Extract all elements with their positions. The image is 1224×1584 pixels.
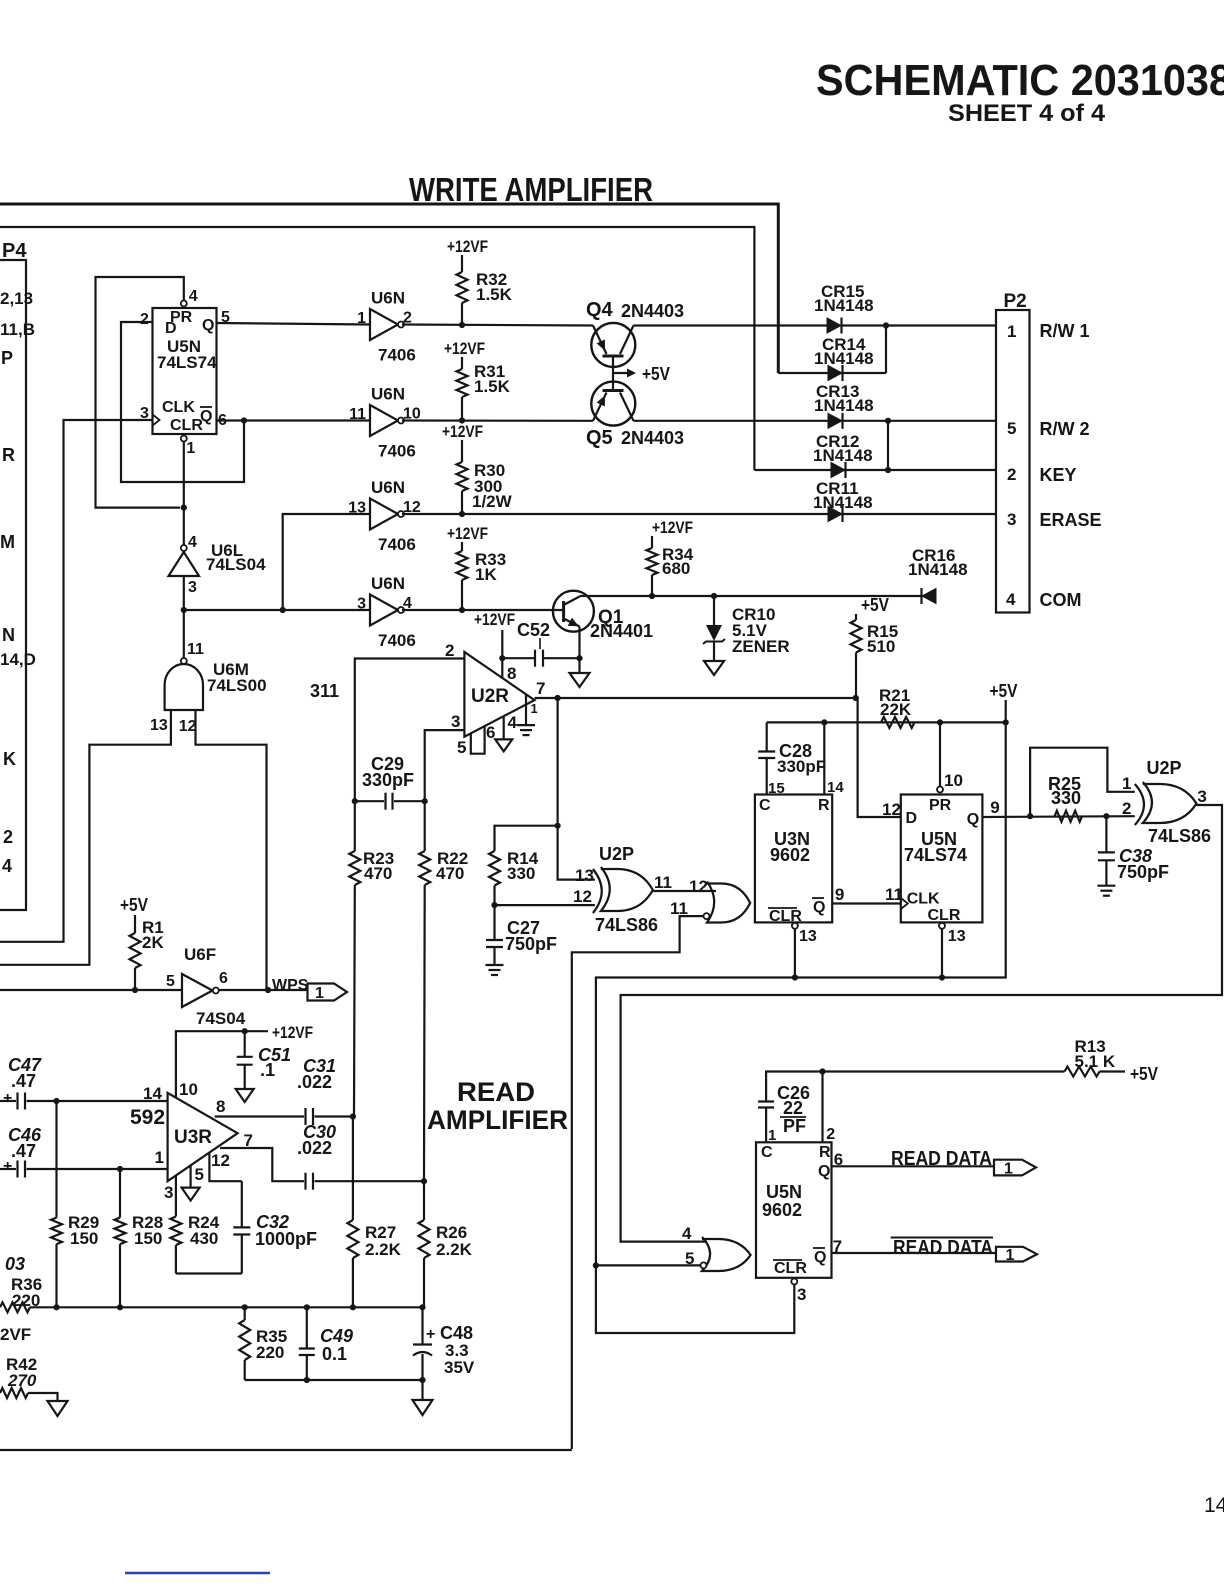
capacitor C51 .1 xyxy=(244,1031,246,1057)
svg-text:4: 4 xyxy=(189,288,198,305)
svg-text:D: D xyxy=(906,810,918,827)
svg-text:5: 5 xyxy=(166,973,175,990)
svg-text:5: 5 xyxy=(195,1165,204,1184)
wire U3N#1 Qbar pin9 to U5N#2 CLK xyxy=(832,902,901,904)
svg-text:7406: 7406 xyxy=(378,346,416,365)
opamp U3R 592 xyxy=(168,1093,238,1181)
svg-text:12: 12 xyxy=(689,877,708,896)
svg-text:3: 3 xyxy=(797,1285,806,1304)
svg-text:4: 4 xyxy=(508,713,518,732)
svg-text:.022: .022 xyxy=(297,1072,332,1092)
svg-text:READ DATA: READ DATA xyxy=(893,1237,993,1259)
resistor R26 2.2K xyxy=(423,1181,425,1220)
svg-text:4: 4 xyxy=(1006,590,1016,609)
svg-text:14: 14 xyxy=(1204,1494,1224,1517)
wire COM line Q1 collector to P2 pin4 xyxy=(580,595,922,597)
svg-text:11: 11 xyxy=(349,406,366,423)
svg-text:13: 13 xyxy=(150,717,168,734)
node junction C51 xyxy=(242,1028,248,1034)
U5N#1 PR bubble pin 4 xyxy=(181,301,187,307)
svg-text:22: 22 xyxy=(783,1098,803,1118)
svg-text:C: C xyxy=(761,1144,773,1161)
inverter U6N#3 7406 xyxy=(370,499,398,530)
svg-text:2N4403: 2N4403 xyxy=(621,301,684,321)
capacitor C32 1000pF xyxy=(241,1181,243,1227)
svg-text:PF: PF xyxy=(783,1116,806,1136)
svg-text:U6N: U6N xyxy=(371,385,405,404)
svg-text:C48: C48 xyxy=(440,1323,473,1343)
U2R pin4 ground xyxy=(503,717,505,740)
capacitor C38 750pF xyxy=(1105,816,1107,852)
wire OR#1 pin11 route from big loop xyxy=(572,916,704,1449)
svg-text:R/W 1: R/W 1 xyxy=(1040,321,1090,341)
svg-text:1/2W: 1/2W xyxy=(472,492,513,511)
inverter U6F 74S04 xyxy=(182,974,213,1007)
zener diode CR10 5.1V xyxy=(713,596,715,625)
wire U6L input down to node xyxy=(183,576,185,610)
wire CR13 to P2 pin5 xyxy=(843,420,997,422)
decorative blue mark xyxy=(125,1572,270,1575)
svg-text:150: 150 xyxy=(134,1229,162,1248)
svg-text:READ: READ xyxy=(457,1077,535,1107)
svg-text:11: 11 xyxy=(187,641,204,658)
svg-text:2N4403: 2N4403 xyxy=(621,428,684,448)
svg-text:680: 680 xyxy=(662,559,690,578)
svg-text:13: 13 xyxy=(348,500,366,517)
wire +12VF stub to U2R pin8 xyxy=(501,630,503,678)
svg-text:3: 3 xyxy=(1197,787,1206,806)
svg-text:ERASE: ERASE xyxy=(1040,510,1102,530)
svg-text:9602: 9602 xyxy=(770,845,810,865)
svg-text:4: 4 xyxy=(682,1224,692,1243)
svg-text:U6N: U6N xyxy=(371,574,405,593)
node junction R26/C48/rail end xyxy=(419,1304,425,1310)
svg-text:CLR: CLR xyxy=(774,1260,807,1277)
monostable U3N 9602 (first) xyxy=(755,795,832,923)
wire R35/C49/C48 bottom loop xyxy=(245,1379,423,1381)
svg-text:R: R xyxy=(2,445,15,465)
node junction C49/rail xyxy=(304,1304,310,1310)
U2R pin3 input wire xyxy=(425,730,465,801)
transistor Q4 2N4403 xyxy=(591,323,635,367)
svg-text:12: 12 xyxy=(179,718,197,735)
svg-text:2: 2 xyxy=(445,641,454,660)
resistor R35 220 xyxy=(244,1307,246,1320)
svg-text:KEY: KEY xyxy=(1040,465,1077,485)
svg-text:6: 6 xyxy=(834,1150,843,1169)
svg-text:AMPLIFIER: AMPLIFIER xyxy=(427,1105,568,1135)
ground R42 xyxy=(48,1401,68,1416)
wire PR loop (pin4 to node) xyxy=(96,277,184,508)
transistor Q1 2N4401 xyxy=(553,591,594,632)
svg-text:74LS00: 74LS00 xyxy=(207,676,267,695)
svg-text:1: 1 xyxy=(1004,1161,1013,1178)
node junction C30/R22/R26 xyxy=(421,1178,427,1184)
svg-text:R: R xyxy=(818,797,830,814)
node junction C52/emitter xyxy=(576,655,582,661)
resistor R23 470 xyxy=(354,801,356,851)
svg-text:750pF: 750pF xyxy=(1117,862,1169,882)
svg-text:+: + xyxy=(426,1326,435,1343)
inverter U6N#2 7406 xyxy=(370,405,398,436)
svg-text:3: 3 xyxy=(1007,510,1016,529)
wire D input loop from Q-bar xyxy=(121,322,244,482)
node junction R34/COM xyxy=(649,593,655,599)
svg-text:14: 14 xyxy=(143,1084,162,1103)
node junction C31/R23/R27 xyxy=(350,1113,356,1119)
wire U2R output pin7 xyxy=(535,697,858,699)
off-page flag READ DATA-bar 1 xyxy=(996,1247,1037,1262)
wire CLR loop xyxy=(596,1265,794,1333)
wire U3R pin7 route xyxy=(220,1148,304,1181)
svg-text:74LS86: 74LS86 xyxy=(1148,826,1211,846)
wire top bus 1 (to CR14) xyxy=(0,204,778,373)
svg-text:+12VF: +12VF xyxy=(444,339,485,358)
svg-text:14: 14 xyxy=(827,779,844,796)
svg-text:74LS74: 74LS74 xyxy=(157,353,217,372)
U3N#1 pin14 lead xyxy=(823,722,825,794)
svg-text:7: 7 xyxy=(244,1131,253,1150)
svg-text:430: 430 xyxy=(190,1229,218,1248)
svg-text:+5V: +5V xyxy=(861,595,889,615)
U5N#3 CLR bubble pin3 xyxy=(791,1279,797,1285)
resistor R31 1.5K xyxy=(461,357,463,369)
svg-text:2N4401: 2N4401 xyxy=(590,621,653,641)
wire PR pin10 stub xyxy=(939,722,941,786)
svg-text:WPS: WPS xyxy=(272,977,309,994)
svg-text:311: 311 xyxy=(310,681,339,701)
svg-text:1: 1 xyxy=(357,310,366,327)
wire R14 bottom to XOR pin12 xyxy=(495,904,595,906)
wire node to U6L output bubble xyxy=(183,508,185,545)
transistor Q5 2N4403 xyxy=(591,382,635,426)
svg-text:+5V: +5V xyxy=(1130,1064,1158,1084)
connector P2 xyxy=(996,310,1030,613)
svg-text:74LS74: 74LS74 xyxy=(904,845,967,865)
svg-text:Q4: Q4 xyxy=(586,299,614,321)
U2R pin5-6 strap xyxy=(471,726,485,754)
node junction C49 bottom xyxy=(304,1377,310,1383)
svg-text:P: P xyxy=(1,348,13,368)
node junction CR14/CR15 xyxy=(883,322,889,328)
node junction R29/rail xyxy=(53,1304,59,1310)
node junction CLR/PR/U6L xyxy=(181,505,187,511)
svg-text:1: 1 xyxy=(1007,322,1016,341)
U3N#1 CLR bubble pin13 xyxy=(792,923,798,929)
capacitor C52 xyxy=(544,657,580,659)
svg-text:11,B: 11,B xyxy=(0,320,35,339)
resistor R14 330 xyxy=(495,826,558,851)
node junction CR10/COM xyxy=(711,593,717,599)
wire U6N#1 output to Q4 base xyxy=(402,325,593,326)
svg-text:7406: 7406 xyxy=(378,535,416,554)
node junction Qbar/D-loop xyxy=(241,417,247,423)
resistor R21 22K xyxy=(881,717,915,728)
svg-text:3: 3 xyxy=(164,1183,173,1202)
wire U5N#2 pin13 to CLR return xyxy=(941,929,943,978)
svg-text:Q: Q xyxy=(967,811,979,828)
svg-text:1: 1 xyxy=(315,985,324,1002)
svg-text:Q: Q xyxy=(202,317,214,334)
svg-text:2: 2 xyxy=(826,1126,835,1143)
wire U6N#4 output to Q1 base xyxy=(402,609,564,611)
svg-text:2: 2 xyxy=(1007,465,1016,484)
node junction R30 xyxy=(459,511,465,517)
wire output down to U5N#2 D pin12 xyxy=(858,698,901,817)
svg-text:15: 15 xyxy=(768,780,785,797)
wire R42 to ground xyxy=(28,1393,58,1401)
svg-text:330: 330 xyxy=(1051,788,1081,808)
svg-text:C49: C49 xyxy=(320,1326,353,1346)
U2R pin1 earth ground xyxy=(525,694,527,725)
svg-text:5: 5 xyxy=(1007,419,1016,438)
svg-text:U2R: U2R xyxy=(471,686,509,707)
node junction R28/rail xyxy=(117,1304,123,1310)
svg-text:2: 2 xyxy=(140,311,149,328)
svg-text:1N4148: 1N4148 xyxy=(814,296,874,315)
node junction C38/XOR pin2 xyxy=(1103,813,1109,819)
svg-text:1: 1 xyxy=(186,440,195,457)
node junction output/R15 xyxy=(853,695,859,701)
ground C48 xyxy=(413,1400,433,1415)
wire U6F input line from left xyxy=(0,989,182,991)
svg-text:9602: 9602 xyxy=(762,1200,802,1220)
svg-text:1N4148: 1N4148 xyxy=(814,349,874,368)
wire OR#2 pin5 from CLR return node xyxy=(596,1264,701,1266)
svg-text:+: + xyxy=(3,1090,12,1107)
svg-text:+12VF: +12VF xyxy=(272,1023,313,1042)
svg-text:U3R: U3R xyxy=(174,1127,212,1148)
svg-text:.022: .022 xyxy=(297,1138,332,1158)
wire big loop bottom to page left xyxy=(0,1449,572,1451)
svg-text:Q: Q xyxy=(813,899,825,916)
wire CR12 KEY line to P2 pin2 xyxy=(754,469,996,471)
wire U6M pin13 route to left rail xyxy=(0,710,171,965)
svg-text:3: 3 xyxy=(357,596,366,613)
node junction C47/R29 xyxy=(53,1098,59,1104)
wire U3N#1 pin13 to CLR return xyxy=(794,929,796,978)
earth ground C27 xyxy=(486,964,504,966)
capacitor C26 22PF xyxy=(766,1072,822,1102)
wire ERASE line U6N#3 output to P2 pin3 xyxy=(402,513,996,515)
svg-text:1: 1 xyxy=(1006,1247,1015,1264)
node junction C29 right xyxy=(422,798,428,804)
svg-text:R: R xyxy=(819,1144,831,1161)
svg-text:220: 220 xyxy=(256,1343,284,1362)
svg-text:.47: .47 xyxy=(11,1141,36,1161)
svg-text:2: 2 xyxy=(1122,799,1131,818)
U5N#2 CLR bubble pin13 xyxy=(939,923,945,929)
svg-text:PR: PR xyxy=(929,797,952,814)
node junction R25 left xyxy=(1027,813,1033,819)
or gate (9602 trigger U5N#3 pins 4/5) xyxy=(702,1237,751,1271)
wire Qbar pin6 to U6N#2 xyxy=(217,419,371,421)
svg-text:1.5K: 1.5K xyxy=(476,285,513,304)
svg-text:+5V: +5V xyxy=(642,364,670,384)
power arrow +5V between Q4 Q5 xyxy=(613,372,634,374)
flip-flop U5N 74LS74 (first) xyxy=(153,308,217,434)
svg-text:Q5: Q5 xyxy=(586,427,613,449)
svg-text:N: N xyxy=(2,625,15,645)
wire bottom rail xyxy=(30,1306,423,1308)
svg-text:1N4148: 1N4148 xyxy=(814,396,874,415)
wire XOR13 branch down xyxy=(558,698,595,880)
svg-text:READ DATA: READ DATA xyxy=(891,1148,992,1170)
svg-text:6: 6 xyxy=(219,970,228,987)
svg-text:4: 4 xyxy=(188,534,197,551)
svg-text:ZENER: ZENER xyxy=(732,637,790,656)
node junction C26/R13/pin2 xyxy=(819,1068,825,1074)
svg-text:1K: 1K xyxy=(475,565,497,584)
NAND gate U6M 74LS00 (pointing up) xyxy=(181,658,187,664)
svg-text:10: 10 xyxy=(944,771,963,790)
node junction +5V/rail xyxy=(1003,719,1009,725)
svg-text:+5V: +5V xyxy=(990,681,1018,701)
wire +5V vertical to CLR return xyxy=(596,700,1006,1265)
svg-text:P4: P4 xyxy=(2,240,27,262)
svg-text:2K: 2K xyxy=(142,933,164,952)
svg-text:CLR: CLR xyxy=(928,907,961,924)
svg-text:74S04: 74S04 xyxy=(196,1009,246,1028)
resistor R29 150 xyxy=(55,1101,57,1218)
resistor R30 300 1/2W xyxy=(461,440,463,462)
svg-text:03: 03 xyxy=(5,1254,25,1274)
svg-text:7406: 7406 xyxy=(378,442,416,461)
svg-text:1000pF: 1000pF xyxy=(255,1229,317,1249)
xor gate U2P 74LS86 (first) xyxy=(593,869,602,913)
node junction R14/C27/XOR12 xyxy=(491,902,497,908)
wire CLR pin1 down to node xyxy=(183,442,185,508)
wire branch up to U6N#3 input xyxy=(283,514,370,610)
svg-text:13: 13 xyxy=(799,928,817,945)
U3R pin10 lead and +12VF rail xyxy=(176,1031,268,1097)
svg-text:12: 12 xyxy=(882,800,901,819)
svg-text:+: + xyxy=(3,1158,12,1175)
wire Q5 collector to CR13 xyxy=(634,420,829,422)
svg-text:CLK: CLK xyxy=(907,891,940,908)
inverter U6L 74LS04 xyxy=(181,545,187,551)
svg-text:13: 13 xyxy=(948,928,966,945)
svg-text:750pF: 750pF xyxy=(505,934,557,954)
svg-text:330pF: 330pF xyxy=(362,770,414,790)
svg-text:3: 3 xyxy=(451,712,460,731)
svg-text:12: 12 xyxy=(211,1151,230,1170)
resistor R24 430 and pin3 lead xyxy=(175,1175,177,1217)
wire U6N#2 output to Q5 base xyxy=(402,419,593,421)
wire top bus 2 (to CR12) xyxy=(0,227,754,470)
resistor R32 1.5K xyxy=(461,255,463,272)
U3R pin5 ground xyxy=(190,1165,192,1188)
wire Q pin5 to U6N#1 xyxy=(217,323,371,325)
svg-text:+12VF: +12VF xyxy=(652,518,693,537)
U5N#1 CLR bubble pin 1 xyxy=(181,436,187,442)
wire CLK input from left rail xyxy=(0,420,153,942)
svg-text:SCHEMATIC 2031038: SCHEMATIC 2031038 xyxy=(816,56,1224,105)
wire Q4 collector to CR15 xyxy=(634,324,828,326)
svg-text:510: 510 xyxy=(867,637,895,656)
svg-text:1: 1 xyxy=(1122,774,1131,793)
wire U6M output stub xyxy=(183,613,185,658)
node junction PR/rail xyxy=(937,719,943,725)
svg-text:C52: C52 xyxy=(517,620,550,640)
wire READ DATA output pin6 xyxy=(832,1165,995,1167)
svg-text:Q: Q xyxy=(814,1249,826,1266)
svg-text:1: 1 xyxy=(531,701,538,716)
wire C48 to ground xyxy=(421,1380,423,1400)
svg-text:2: 2 xyxy=(3,827,13,847)
resistor R27 2.2K xyxy=(352,1117,354,1221)
inverter U6N#1 7406 xyxy=(370,309,398,340)
svg-text:.47: .47 xyxy=(11,1071,36,1091)
wire node to U6N#4 input xyxy=(184,609,370,611)
ground CR10 xyxy=(704,661,724,675)
svg-text:2.2K: 2.2K xyxy=(365,1240,402,1259)
resistor R28 150 xyxy=(119,1169,121,1218)
svg-text:2.2K: 2.2K xyxy=(436,1240,473,1259)
svg-text:150: 150 xyxy=(70,1229,98,1248)
node junction branch to U6N#3 xyxy=(280,607,286,613)
node junction R33 xyxy=(459,607,465,613)
capacitor C49 0.1 xyxy=(306,1307,308,1348)
ground C51 xyxy=(236,1089,254,1102)
svg-text:K: K xyxy=(3,749,16,769)
svg-text:7406: 7406 xyxy=(378,631,416,650)
svg-text:1N4148: 1N4148 xyxy=(908,560,968,579)
U5N#3 pin2 lead xyxy=(821,1072,823,1143)
comparator U2R 311 xyxy=(464,652,534,737)
svg-text:COM: COM xyxy=(1040,590,1082,610)
svg-text:3: 3 xyxy=(188,579,197,596)
wire CR15 to P2 pin1 xyxy=(842,324,997,326)
svg-text:4: 4 xyxy=(2,856,12,876)
node junction U6L/U6M/U6N inputs xyxy=(181,607,187,613)
svg-text:35V: 35V xyxy=(444,1358,475,1377)
svg-text:330: 330 xyxy=(507,864,535,883)
node junction output/XOR13 xyxy=(555,695,561,701)
svg-text:0.1: 0.1 xyxy=(322,1344,347,1364)
node junction WPS xyxy=(265,987,271,993)
svg-text:12: 12 xyxy=(573,887,592,906)
svg-text:9: 9 xyxy=(990,798,999,817)
svg-text:CLR: CLR xyxy=(170,417,203,434)
node junction R14 top xyxy=(555,823,561,829)
wire U5N#2 Q pin9 to R25 node xyxy=(982,815,1134,818)
or gate (9602 trigger U3N pins 12/11) xyxy=(707,882,750,923)
capacitor C27 750pF xyxy=(493,905,495,940)
U3R pin12 lead to C32 xyxy=(209,1154,241,1182)
node junction R32 xyxy=(459,322,465,328)
svg-text:22K: 22K xyxy=(880,700,912,719)
svg-text:1: 1 xyxy=(155,1148,164,1167)
svg-text:9: 9 xyxy=(835,885,844,904)
capacitor C48 3.3 35V (polarized) xyxy=(421,1307,423,1344)
svg-text:D: D xyxy=(165,320,177,337)
monostable U5N 9602 (second) xyxy=(756,1142,832,1278)
svg-text:P2: P2 xyxy=(1004,291,1027,312)
wire U3R pin8 output xyxy=(215,1115,304,1117)
svg-text:U5N: U5N xyxy=(766,1182,802,1202)
node junction R1/U6F input xyxy=(132,987,138,993)
svg-text:CLR: CLR xyxy=(769,908,802,925)
node junction R31 xyxy=(459,417,465,423)
node junction C46/R28 xyxy=(117,1166,123,1172)
svg-text:U6F: U6F xyxy=(184,945,216,964)
svg-text:2VF: 2VF xyxy=(0,1325,31,1344)
svg-text:5: 5 xyxy=(457,738,466,757)
svg-text:C: C xyxy=(759,797,771,814)
U2R pin2 input wire xyxy=(355,659,465,802)
svg-text:1N4148: 1N4148 xyxy=(813,446,873,465)
